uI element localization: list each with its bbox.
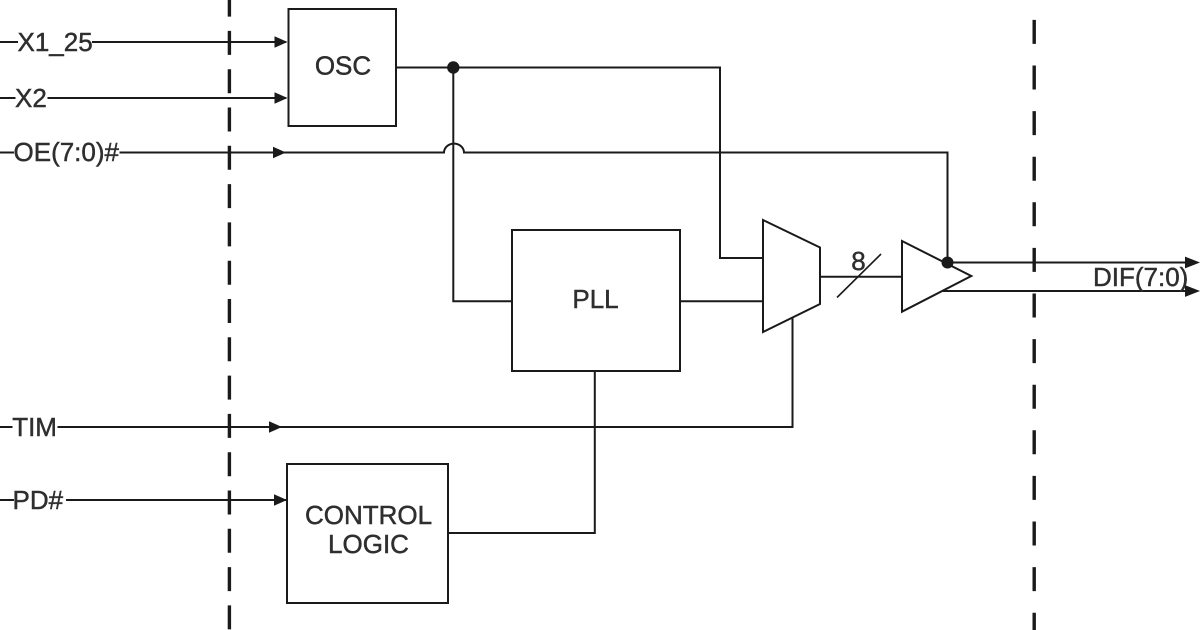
chip boundary dashed line (right) (1032, 0, 1035, 630)
arrowhead DIF top (1185, 257, 1200, 269)
block CONTROL LOGIC (287, 464, 448, 603)
wire mux output bus to buffer (820, 276, 902, 278)
wire TIM input (stub) (0, 426, 13, 428)
svg-text:CONTROL: CONTROL (305, 500, 432, 530)
junction dot buffer output (942, 257, 954, 269)
wire DIF output top (944, 262, 1186, 264)
wire PLL output to mux lower input (680, 300, 763, 302)
wire X1_25 input (92, 41, 286, 43)
wire TIM input to mux select (58, 318, 793, 427)
chip boundary dashed line (left) (228, 0, 231, 630)
wire PD# input (66, 499, 286, 501)
arrowhead PD# (274, 494, 287, 506)
arrowhead TIM (269, 421, 282, 433)
svg-text:TIM: TIM (12, 412, 57, 442)
bus width slash (837, 254, 881, 298)
wire X2 input (stub) (0, 97, 16, 99)
wire OSC output to mux top input (396, 68, 763, 259)
wire PD# input (stub) (0, 499, 14, 501)
block PLL (512, 230, 680, 371)
junction dot OSC output (447, 61, 459, 73)
svg-text:DIF(7:0): DIF(7:0) (1093, 262, 1188, 292)
wire OSC tap down to PLL input (453, 68, 512, 302)
svg-text:PLL: PLL (572, 284, 618, 314)
block OSC (289, 9, 397, 126)
svg-text:PD#: PD# (13, 485, 64, 515)
wire X1_25 input (stub) (0, 41, 18, 43)
arrowhead DIF bottom (1185, 285, 1200, 297)
wire OE(7:0)# with hop over vertical, to mux output dot (120, 144, 948, 263)
svg-text:8: 8 (851, 246, 865, 276)
wire PLL bottom to control logic (448, 371, 595, 533)
mux (trapezoid) (763, 220, 820, 332)
wire X2 input (48, 97, 287, 99)
wire OE(7:0)# input (stub) (0, 152, 14, 154)
svg-text:OSC: OSC (315, 51, 371, 81)
arrowhead X2 (275, 92, 288, 104)
svg-text:X2: X2 (15, 83, 47, 113)
arrowhead X1_25 (275, 36, 288, 48)
svg-text:OE(7:0)#: OE(7:0)# (14, 137, 120, 167)
svg-text:LOGIC: LOGIC (328, 529, 409, 559)
svg-text:X1_25: X1_25 (18, 27, 93, 57)
arrowhead OE (273, 147, 286, 159)
wire DIF output bottom (942, 290, 1186, 292)
output buffer (triangle) (902, 241, 971, 312)
